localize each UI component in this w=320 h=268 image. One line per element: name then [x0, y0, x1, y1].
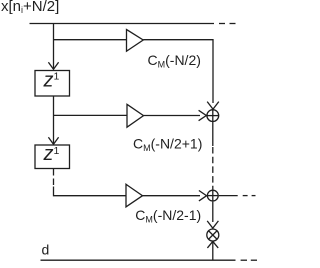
delay box Z2: [35, 145, 70, 169]
wire: row2 output to adder 1: [144, 115, 201, 117]
wire: adder2 output right with dashes: [219, 195, 238, 197]
signal label d: [42, 242, 50, 258]
amplifier triangle 2: [127, 104, 144, 127]
wire: row 2 branch to amp 2: [54, 114, 128, 116]
label z^-1: [43, 69, 60, 91]
arrowhead into adder 1 top: [207, 102, 219, 110]
arrowhead into delay 2: [48, 137, 58, 144]
arrowhead into multiplier top: [207, 221, 218, 228]
arrowhead into adder 2 left: [199, 191, 207, 201]
wire: d bus line: [41, 259, 236, 261]
amplifier triangle 1: [127, 30, 144, 52]
wire: d line up into multiplier: [212, 242, 214, 260]
adder 2 circle with plus: [207, 190, 218, 201]
arrowhead into adder 1 left: [199, 110, 207, 120]
svg-text:x[ni+N/2]: x[ni+N/2]: [1, 0, 59, 15]
svg-text:d: d: [42, 242, 50, 258]
svg-text:CM(-N/2): CM(-N/2): [148, 52, 201, 70]
amplifier triangle 3: [126, 184, 143, 207]
svg-text:CM(-N/2+1): CM(-N/2+1): [133, 135, 202, 153]
multiplier circle with X: [207, 229, 219, 241]
gain label CM(-N/2): [148, 52, 201, 70]
wire: row 1 branch to amp 1: [54, 39, 127, 41]
arrowhead into delay 1: [48, 62, 58, 69]
wire: dashed below delay 2: [53, 169, 55, 187]
svg-text:z1: z1: [43, 69, 60, 91]
gain label CM(-N/2+1): [133, 135, 202, 153]
wire: d bus continuation dashes: [241, 259, 247, 261]
wire: row3 output to adder 2: [143, 195, 201, 197]
svg-text:CM(-N/2-1): CM(-N/2-1): [135, 207, 201, 225]
label z^-1 (2): [43, 143, 60, 165]
wire: row 3 corner to amp 3: [54, 187, 127, 196]
wire: input bus line: [30, 23, 215, 25]
arrowhead up into multiplier bottom: [207, 241, 218, 248]
wire: delay1 to delay2 vertical: [53, 96, 55, 144]
delay box Z1: [35, 71, 70, 97]
wire: adder1 down solid then dashed to adder 2: [212, 122, 214, 146]
wire: vertical tap down to delay 1: [53, 24, 55, 70]
adder 1 circle with plus: [207, 110, 219, 122]
wire: adder2 down to multiplier: [212, 202, 214, 222]
svg-text:z1: z1: [43, 143, 60, 165]
wire: row1 output with corner down to adder 1: [143, 40, 213, 103]
wire: bus continuation dashes top right: [219, 23, 225, 25]
input signal label x[n+N/2]: [1, 0, 59, 15]
gain label CM(-N/2-1): [135, 207, 201, 225]
